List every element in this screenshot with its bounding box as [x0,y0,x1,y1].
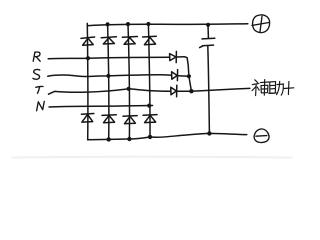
diode D8 (lower, column 1) [81,114,93,123]
wire column 2 vertical [108,24,109,139]
wire column 1 vertical [86,23,89,139]
wire aux link vertical [185,57,192,91]
terminal minus (-) [254,129,269,143]
diode D9 (lower, column 2) [102,115,116,123]
capacitor C1 bottom plate tick [200,46,203,48]
助 left part [270,82,276,94]
junction dot S / column 2 [106,74,110,78]
junction dot R / column 1 [86,56,90,60]
wire capacitor to bottom bus [208,46,210,133]
diode D10 (lower, column 3) [123,116,137,124]
label S [33,69,40,79]
wire D6 cathode to link [178,75,189,78]
label T [36,86,43,93]
wire D5 cathode to link [176,56,184,58]
diode D1 (upper, column 1) [81,37,95,45]
junction dot T / column 3 [127,87,131,91]
terminal plus (+) [252,15,270,33]
wire phase line N [49,106,153,108]
diode D6 (aux, S phase) [172,70,178,81]
capacitor C1 top stub [207,25,209,38]
capacitor C1 top plate [202,37,215,40]
wire phase line S [48,75,172,77]
wire phase line R [48,57,169,59]
capacitor C1 bottom plate [202,44,213,47]
wire column 4 vertical [148,24,150,137]
wire auxiliary output [191,88,249,91]
label 補助+ (auxiliary +) hand-drawn [252,80,294,96]
label R [33,52,40,61]
wire column 3 vertical [128,24,130,139]
junction dots top bus [106,22,211,27]
plus sign [284,87,294,90]
wire top bus (+) [87,24,248,26]
助 right part [277,83,284,86]
diode D5 (aux, R phase) [170,51,177,62]
junction dot N / column 4 [147,104,151,108]
paper smudge bottom [12,156,292,159]
補 right part [260,81,268,84]
junction dots bottom bus [107,131,212,141]
diode D11 (lower, column 4) [143,115,157,123]
diode D2 (upper, column 2) [101,37,116,44]
diode D4 (upper, column 4) [143,36,157,44]
diode D3 (upper, column 3) [122,37,137,45]
wire bottom bus (-) [88,133,247,139]
label N [37,101,45,110]
wire phase line T (with start tick) [49,89,171,94]
diode D7 (aux, T phase) [171,85,177,97]
junction dot aux link / T diode [189,89,193,93]
補 radical [255,80,258,83]
wire D7 cathode to junction [177,90,192,92]
junction dot aux link / S diode [187,74,191,78]
